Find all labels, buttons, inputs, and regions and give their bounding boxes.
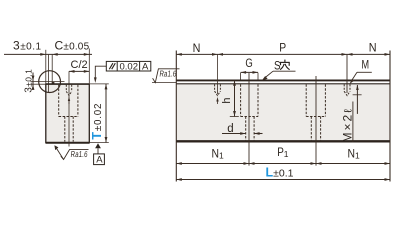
parallelism frame leader	[95, 66, 106, 80]
counterbore hole 1 hidden walls	[240, 84, 242, 116]
dimension C/2	[69, 70, 89, 72]
top tapped hole drill tip (end view)	[66, 92, 71, 96]
side tapped hole circle M	[39, 71, 61, 93]
counterbore hole 1 centerline	[248, 73, 250, 166]
end view outline right edge	[88, 84, 90, 144]
dimension d line right part	[254, 133, 262, 135]
svg-text:M×2ℓ: M×2ℓ	[341, 107, 355, 142]
svg-text:C±0.05: C±0.05	[55, 39, 90, 53]
arrow pointing right at right face	[84, 53, 90, 56]
left top tapped hole drill tip	[215, 91, 221, 95]
svg-text:T±0.02: T±0.02	[90, 103, 104, 140]
svg-text:P1: P1	[277, 147, 289, 159]
dimension line 3 / C (top of end view)	[4, 53, 92, 55]
svg-text:P: P	[279, 41, 286, 55]
parallelism feature control frame	[106, 61, 151, 71]
hole center vertical extension pair	[48, 55, 50, 93]
circle horizontal centerline	[30, 81, 64, 83]
svg-text:A: A	[96, 155, 103, 166]
bottom dimension line N1 P1 N1	[176, 163, 390, 165]
svg-text:3±0.1: 3±0.1	[13, 39, 42, 53]
counterbore hole 1 G extension lines	[240, 73, 242, 80]
top tapped hole hidden walls (end view)	[65, 85, 67, 92]
svg-text:Ra1.6: Ra1.6	[159, 68, 177, 78]
through hole 2 d hidden walls	[310, 117, 312, 141]
dimension G line	[241, 71, 258, 73]
svg-text:h: h	[221, 97, 233, 103]
M leader	[351, 72, 357, 81]
bottom dimension line L	[176, 179, 390, 181]
arrows at right M hole	[342, 53, 348, 56]
svg-text:N: N	[193, 41, 201, 55]
svg-text:G: G	[245, 56, 252, 70]
front view right edge with extensions	[389, 51, 391, 182]
datum stem	[97, 148, 99, 154]
M underline	[357, 71, 372, 73]
svg-text:C/2: C/2	[71, 59, 88, 71]
right edge extension line up	[88, 49, 90, 84]
counterbore hole 2 hidden walls	[305, 84, 307, 116]
front view bottom thick edge	[176, 140, 390, 142]
end view outline top edge	[46, 83, 90, 85]
svg-text:Ra1.6: Ra1.6	[70, 149, 88, 159]
svg-text:A: A	[142, 62, 149, 73]
dimension d line left part	[222, 133, 246, 135]
counterbore hole 2 bottom hidden line	[306, 116, 325, 118]
right top tapped hole drill tip	[344, 91, 350, 95]
part body fill (front view)	[177, 85, 390, 140]
end view outline bottom edge	[46, 142, 90, 144]
surface finish Ra1.6 (top of main view) extension line	[152, 82, 176, 84]
arrows at left M hole	[212, 53, 218, 56]
svg-text:L±0.1: L±0.1	[266, 165, 294, 179]
svg-text:d: d	[227, 123, 233, 135]
through hole d hidden walls (end view)	[64, 117, 66, 142]
part body fill (end view)	[46, 84, 89, 142]
counterbore centerline (end view)	[68, 71, 70, 146]
top dimension line N P N	[176, 53, 390, 55]
arrow at right end	[385, 53, 391, 56]
svg-text:0.02: 0.02	[120, 62, 139, 73]
arrow pointing right at left face	[40, 53, 46, 56]
arrow pointing left at hole center	[52, 53, 58, 56]
depth arrow under top tapped hole (end view)	[68, 97, 70, 102]
label M×2ℓ underline (vertical)	[352, 102, 354, 143]
h extension line	[230, 116, 239, 118]
kanji 穴 drawn as strokes	[280, 60, 290, 70]
arrows at left end	[176, 53, 182, 56]
svg-text:3±0.1: 3±0.1	[23, 69, 34, 93]
svg-text:N1: N1	[212, 148, 225, 160]
front view left edge with extensions	[175, 51, 177, 182]
dimension h line	[234, 80, 236, 116]
svg-text:N1: N1	[348, 148, 361, 160]
surface finish Ra1.6 (bottom of end view) leader arrow	[54, 145, 58, 150]
thread depth dimension M×2 line	[356, 85, 358, 114]
label Ra1.6 (top)	[159, 68, 177, 78]
vertical dimension 3±0.1 (left side)	[30, 83, 45, 85]
datum triangle	[95, 143, 101, 148]
end view outline left edge	[45, 84, 47, 144]
surface finish check mark (bottom)	[61, 150, 89, 160]
datum A box	[94, 154, 105, 165]
front view top thick edge	[176, 79, 390, 81]
left top tapped hole hidden walls	[214, 84, 216, 91]
S穴 leader	[264, 71, 273, 78]
parallelism symbol	[109, 63, 113, 69]
left edge extension line up	[45, 50, 47, 84]
counterbore G hidden walls (end view)	[58, 85, 60, 117]
svg-text:S: S	[274, 60, 281, 72]
T dimension extension lines	[89, 83, 109, 85]
counterbore hole 2 centerline	[315, 76, 317, 166]
surface finish check mark (top)	[153, 69, 180, 83]
counterbore hole 1 bottom hidden line	[241, 116, 258, 118]
svg-text:M: M	[362, 59, 370, 71]
T dimension line	[105, 84, 107, 143]
S穴 underline	[273, 70, 296, 72]
depth arrow under left tapped hole	[216, 97, 218, 102]
front view chamfer line	[176, 83, 390, 85]
svg-text:N: N	[369, 40, 377, 54]
left top tapped hole centerline	[217, 54, 219, 94]
through hole 1 d hidden walls	[245, 117, 247, 141]
label Ra1.6 (bottom)	[70, 149, 88, 159]
right top tapped hole centerline	[346, 54, 348, 93]
thread depth extension line	[353, 94, 362, 96]
counterbore bottom hidden line (end view)	[59, 116, 78, 118]
right top tapped hole hidden walls	[343, 84, 345, 91]
